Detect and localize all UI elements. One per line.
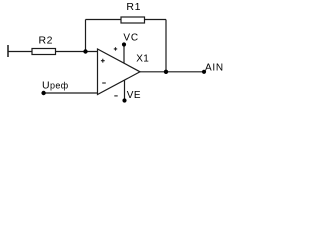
node junction dot at inverting input	[83, 49, 87, 53]
svg-text:R2: R2	[39, 34, 54, 46]
resistor R1	[121, 17, 145, 23]
node VE terminal dot	[122, 98, 126, 102]
svg-text:X1: X1	[136, 53, 149, 64]
wire R2 to op-amp minus-corner input	[56, 51, 98, 53]
node Uref terminal dot	[41, 91, 45, 95]
wire Uref to op-amp plus-corner input	[44, 92, 98, 94]
wire feedback vertical from node up to top rail	[85, 20, 87, 52]
wire op-amp output to AIN	[140, 71, 204, 73]
resistor R2	[32, 49, 56, 55]
VC power pin stub	[123, 45, 125, 64]
VE pin polarity minus mark	[114, 95, 117, 97]
wire top rail right segment from R1	[145, 19, 167, 21]
op-amp U1 triangle body	[98, 49, 141, 95]
svg-text:VE: VE	[127, 90, 141, 101]
svg-text:AIN: AIN	[205, 63, 224, 74]
svg-text:R1: R1	[126, 1, 141, 13]
VC pin polarity plus mark	[114, 47, 117, 50]
svg-text:VC: VC	[123, 33, 138, 44]
input port terminal bar	[7, 45, 9, 57]
wire feedback vertical down to output	[165, 20, 167, 72]
svg-text:Uреф: Uреф	[42, 80, 69, 92]
node AIN terminal dot	[202, 70, 206, 74]
wire input terminal to R2	[8, 51, 32, 53]
node output junction dot	[164, 70, 168, 74]
VE power pin stub	[124, 80, 126, 101]
op-amp input plus mark	[101, 59, 105, 63]
wire top rail left segment to R1	[86, 19, 122, 21]
node VC terminal dot	[122, 42, 126, 46]
op-amp input minus mark	[102, 82, 106, 84]
